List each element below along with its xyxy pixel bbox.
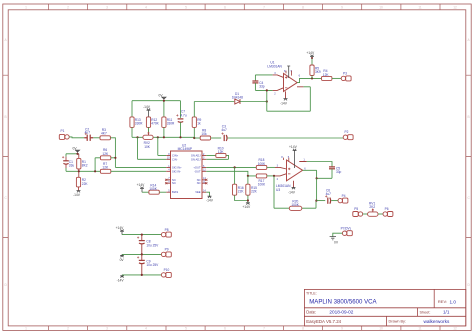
svg-text:10k: 10k [201, 132, 207, 136]
power flag 0V (input) [76, 150, 80, 154]
wire VEE to -14V [206, 192, 209, 196]
wire C3 to P2 [228, 137, 344, 139]
junction R7 left [94, 170, 96, 172]
U2 pin names left [172, 153, 182, 194]
svg-text:NC: NC [197, 178, 201, 182]
svg-text:GN ADJ: GN ADJ [191, 157, 201, 161]
wire P5 to RV1 [363, 213, 368, 215]
wire 0V rail [122, 253, 161, 255]
wire -14V rail [122, 274, 161, 276]
svg-text:SIG IN-: SIG IN- [172, 169, 181, 173]
U1 V+ stub [287, 66, 290, 78]
svg-text:10: 10 [379, 5, 383, 9]
wire C1 bottom [65, 164, 67, 168]
svg-text:Sheet:: Sheet: [420, 310, 431, 314]
wire output down to R20 node [316, 178, 318, 200]
wire R6 right junction [111, 158, 166, 168]
svg-text:+OUT: +OUT [193, 165, 201, 169]
resistor R9 vertical [192, 117, 196, 128]
svg-text:5: 5 [185, 5, 187, 9]
wire R9 top to D1 rail [194, 102, 234, 117]
svg-text:12: 12 [453, 5, 457, 9]
junction R20 tap [273, 175, 275, 177]
potentiometer RV1 [368, 208, 378, 216]
U2 pin names right [191, 153, 201, 194]
op-amp U1 pin numbers [274, 70, 300, 96]
resistor R7 [100, 169, 110, 173]
svg-text:33p: 33p [336, 170, 342, 174]
capacitor C6 electrolytic [325, 195, 331, 204]
svg-text:Date:: Date: [306, 310, 316, 315]
junction C9 bottom [141, 274, 143, 276]
diode D1 [235, 99, 240, 104]
U3 top pin stubs 8,5 [283, 158, 288, 162]
power flag 0V (top of resistor bank) [162, 97, 166, 101]
svg-text:VEE: VEE [195, 190, 201, 194]
power flag -14V (U3) [292, 187, 296, 189]
power flag +14V (R15/R16) [246, 203, 250, 205]
wire R4 to P3 [332, 77, 341, 79]
wire C2 to R3 [93, 137, 100, 139]
wire -OUT down to R17 line [206, 171, 256, 176]
svg-text:CIN+: CIN+ [172, 153, 179, 157]
connector P3 [341, 76, 351, 81]
svg-text:B: B [468, 115, 470, 119]
power flag +14V (bias) [140, 187, 144, 193]
wire C6 to P4 [331, 200, 338, 202]
svg-text:-14V: -14V [143, 105, 151, 109]
svg-text:-14V: -14V [73, 193, 81, 197]
svg-text:1: 1 [25, 327, 27, 331]
junction -OUT/R15 [247, 175, 249, 177]
svg-text:2K2: 2K2 [369, 205, 375, 209]
resistor R11 vertical [162, 117, 166, 128]
svg-text:9: 9 [341, 5, 343, 9]
capacitor C2 [84, 133, 93, 141]
resistor R10 [216, 153, 226, 157]
svg-text:4.7u: 4.7u [180, 113, 186, 117]
svg-text:4: 4 [145, 327, 147, 331]
svg-text:REV:: REV: [438, 299, 447, 304]
wire +14V rail [122, 234, 161, 236]
power flag +14V (U1) [311, 56, 313, 65]
svg-text:12K: 12K [102, 152, 109, 156]
svg-text:100K: 100K [149, 187, 157, 191]
wire C4 loop bottom [255, 83, 272, 91]
svg-text:BIAS: BIAS [172, 190, 178, 194]
svg-text:B: B [5, 115, 7, 119]
resistor R8 [200, 136, 210, 140]
svg-text:P4: P4 [342, 194, 346, 198]
svg-text:10K: 10K [144, 145, 151, 149]
svg-text:100K: 100K [258, 182, 266, 186]
svg-text:P8: P8 [165, 228, 169, 232]
svg-text:12K: 12K [323, 73, 330, 77]
svg-text:SIG IN+: SIG IN+ [172, 165, 182, 169]
svg-text:12K: 12K [218, 150, 225, 154]
wire RV1 to P6 [378, 213, 383, 215]
svg-text:-14V: -14V [280, 102, 288, 106]
svg-text:P7(0V): P7(0V) [341, 227, 351, 231]
svg-text:8K2: 8K2 [82, 164, 88, 168]
wire 0V to C1/R1 top [66, 154, 79, 157]
power flag +14V (U3) [293, 149, 297, 168]
wire feedback net vertical [267, 87, 311, 111]
svg-text:3K9: 3K9 [315, 70, 321, 74]
svg-text:8: 8 [302, 5, 304, 9]
svg-text:1: 1 [25, 5, 27, 9]
junction R8 node [193, 137, 195, 139]
U1 top pin stubs 8,5 [286, 71, 292, 76]
connector P6 [383, 212, 393, 217]
connector P2 [343, 135, 353, 140]
power flag -14V above R12 [147, 108, 151, 117]
resistor R20 [289, 206, 302, 210]
svg-text:11: 11 [418, 5, 422, 9]
svg-text:1/1: 1/1 [443, 310, 450, 315]
resistor R5 vertical [310, 65, 314, 76]
svg-text:MAPLIN 3800/5600 VCA: MAPLIN 3800/5600 VCA [309, 299, 377, 306]
svg-text:P1: P1 [61, 129, 65, 133]
svg-text:6: 6 [224, 327, 226, 331]
svg-text:10u 25V: 10u 25V [146, 263, 159, 267]
svg-text:P10: P10 [164, 268, 170, 272]
junction R6/R3 [114, 157, 116, 159]
IC U2 MC1496P body [171, 151, 203, 199]
svg-text:33u: 33u [69, 164, 75, 168]
connector P4 [338, 198, 348, 203]
svg-text:11: 11 [418, 327, 422, 331]
power flag 0V (supply) [120, 254, 124, 257]
svg-text:-14V: -14V [206, 198, 214, 202]
svg-text:NC: NC [172, 178, 176, 182]
svg-text:4u7: 4u7 [326, 192, 332, 196]
wire C5 bottom loop to output [303, 169, 332, 179]
wire CIN- from rail [138, 137, 167, 159]
op-amp U3 pin numbers [277, 156, 307, 181]
resistor R17 [256, 174, 267, 178]
wire R14 to BIAS [159, 191, 166, 193]
power flag -14V (supply) [120, 275, 124, 278]
svg-text:100K: 100K [258, 162, 266, 166]
svg-text:22K: 22K [238, 189, 245, 193]
wire U1 output [297, 78, 321, 82]
wire +14V to R14 [142, 191, 149, 193]
power flag -14V (VEE) [208, 196, 212, 198]
svg-text:1.0: 1.0 [450, 299, 457, 304]
capacitor C8 electrolytic [141, 235, 143, 241]
wire R17 to U3 pin2 [267, 175, 275, 177]
svg-text:NC: NC [197, 181, 201, 185]
svg-text:100K: 100K [291, 203, 299, 207]
junction R15/R16 [247, 199, 249, 201]
NC pin x-marks [165, 179, 207, 185]
svg-text:9: 9 [341, 327, 343, 331]
wire R8 to C3 [211, 137, 222, 139]
wire R3 down to R6 node [110, 138, 115, 158]
ground 0V (P7) [330, 237, 336, 240]
resistor R12 vertical [146, 117, 150, 128]
resistor R10 + loop (gain adj) [206, 155, 228, 159]
resistor R14 [149, 190, 159, 194]
svg-text:33p: 33p [259, 85, 265, 89]
svg-text:Drawn By:: Drawn By: [389, 320, 407, 324]
power flag -14V below R2 [78, 187, 80, 191]
U1 +/- marks [285, 76, 287, 88]
svg-text:+14V: +14V [289, 145, 298, 149]
svg-text:-14V: -14V [117, 279, 125, 283]
svg-text:22K: 22K [82, 182, 89, 186]
wire P1 to C2 [69, 136, 84, 139]
wire R7 to SIG IN- [111, 170, 166, 172]
capacitor C9 electrolytic [141, 254, 143, 260]
svg-text:P5: P5 [354, 207, 358, 211]
svg-text:1N4148: 1N4148 [232, 96, 243, 100]
connector P9 [161, 252, 171, 257]
svg-text:2: 2 [67, 5, 69, 9]
resistor R15 vertical [247, 176, 249, 184]
capacitor C1 electrolytic [62, 156, 69, 164]
svg-text:330R: 330R [167, 122, 175, 126]
frame ticks left [3, 75, 8, 237]
connector P5 [353, 212, 363, 217]
wire P7 to ground [333, 233, 343, 236]
svg-text:1k: 1k [197, 122, 201, 126]
wire top rail [132, 101, 181, 118]
svg-text:3: 3 [106, 5, 108, 9]
svg-text:+14V: +14V [242, 205, 251, 209]
svg-text:7: 7 [263, 327, 265, 331]
svg-text:22K: 22K [251, 189, 258, 193]
connector P7 [342, 231, 352, 236]
frame ticks top [49, 4, 441, 10]
capacitor C7 electrolytic [176, 114, 183, 122]
junction C8 top [141, 234, 143, 236]
wire U3 pin1 to C5 [307, 162, 332, 167]
resistor R3 [100, 136, 110, 140]
wire C7 bottom [180, 122, 182, 137]
svg-text:P2: P2 [345, 130, 349, 134]
wire +OUT to R18 [206, 166, 256, 168]
svg-text:EasyEDA V5.7.24: EasyEDA V5.7.24 [306, 319, 341, 324]
wire R9 bottom to R8 [194, 137, 200, 139]
op-amp U1 input stubs [273, 75, 304, 91]
wire C4 loop top [255, 75, 272, 81]
svg-text:-14V: -14V [288, 190, 296, 194]
svg-text:10u 25V: 10u 25V [146, 243, 159, 247]
junction output/R5 [311, 77, 313, 79]
svg-text:P9: P9 [165, 248, 169, 252]
op-amp U3 triangle [287, 160, 303, 181]
power flag -14V (U1) [284, 99, 288, 101]
svg-text:470K: 470K [151, 122, 159, 126]
U2 right pin stubs [202, 155, 206, 192]
resistor R1 vertical [77, 158, 81, 169]
junction top rail [163, 100, 165, 102]
potentiometer RV2 [143, 127, 153, 139]
connector P1 [59, 134, 69, 139]
svg-text:CIN-: CIN- [172, 157, 178, 161]
resistor R6 [100, 156, 110, 160]
svg-text:+14V: +14V [137, 183, 146, 187]
svg-text:NC: NC [172, 181, 176, 185]
svg-text:2: 2 [67, 327, 69, 331]
svg-text:10: 10 [379, 327, 383, 331]
svg-text:P6: P6 [385, 207, 389, 211]
junction bottom rail [136, 136, 138, 138]
wire resistor-bank bottom rail [132, 127, 194, 138]
svg-text:330R: 330R [135, 122, 143, 126]
op-amp U1 triangle [284, 73, 298, 91]
svg-text:4: 4 [145, 5, 147, 9]
svg-text:P3: P3 [343, 71, 347, 75]
svg-text:4u7: 4u7 [221, 128, 227, 132]
U2 left pin stubs [166, 155, 170, 192]
junction C1R1 bottom [78, 170, 80, 172]
svg-text:+14V: +14V [306, 51, 315, 55]
wire R15/R16 bottoms [235, 195, 248, 203]
capacitor C3 electrolytic [221, 132, 227, 141]
resistor R18 [256, 165, 267, 169]
wire bottom rail to R7 [66, 158, 100, 172]
U3 +/- marks [288, 168, 290, 174]
svg-text:4u7: 4u7 [85, 131, 91, 135]
svg-text:+14V: +14V [116, 226, 125, 230]
svg-text:4K7: 4K7 [101, 132, 107, 136]
wire D1 to U1 loop [240, 101, 267, 103]
wire R20 loop [274, 176, 316, 208]
resistor R16 vertical [234, 167, 236, 184]
U3 V- stub to -14V [293, 181, 295, 188]
title block [304, 289, 465, 326]
frame ticks right [466, 75, 471, 237]
capacitor C4 [252, 81, 258, 83]
connector P10 [161, 272, 171, 277]
svg-text:-OUT: -OUT [194, 169, 201, 173]
svg-text:walkerworks: walkerworks [424, 319, 450, 324]
svg-text:3: 3 [106, 327, 108, 331]
wire R18 to U3 pin3 [267, 166, 275, 168]
power flag +14V (supply) [120, 229, 124, 234]
svg-text:GN ADJ: GN ADJ [191, 153, 201, 157]
resistor R4 [322, 76, 332, 80]
junction [76, 153, 78, 155]
junction C8/C9 [141, 253, 143, 255]
svg-text:U3: U3 [276, 188, 280, 192]
wire CIN+ from rail [158, 137, 166, 155]
svg-text:12: 12 [453, 327, 457, 331]
junction C4 loop [266, 89, 268, 91]
U2 pin numbers [167, 153, 170, 193]
svg-text:8: 8 [302, 327, 304, 331]
svg-text:MC1496P: MC1496P [178, 147, 192, 151]
svg-text:5: 5 [185, 327, 187, 331]
svg-text:TITLE:: TITLE: [306, 292, 317, 296]
wire to C6 [316, 200, 325, 202]
svg-text:2018-09-02: 2018-09-02 [329, 310, 353, 315]
resistor R13 vertical [130, 117, 134, 128]
connector P8 [161, 232, 171, 237]
capacitor C5 [329, 167, 335, 169]
svg-text:7: 7 [263, 5, 265, 9]
junction R20/C6 [315, 200, 317, 202]
svg-text:6: 6 [224, 5, 226, 9]
resistor R2 vertical [76, 177, 80, 187]
frame ticks bottom [49, 326, 441, 331]
svg-text:12K: 12K [102, 166, 109, 170]
junction +OUT/R16 [234, 166, 236, 168]
junction D1 net [266, 100, 268, 102]
svg-text:LM301AN: LM301AN [267, 64, 282, 68]
op-amp U3 input stubs [275, 162, 307, 176]
U1 V- stub to -14V [285, 91, 287, 98]
